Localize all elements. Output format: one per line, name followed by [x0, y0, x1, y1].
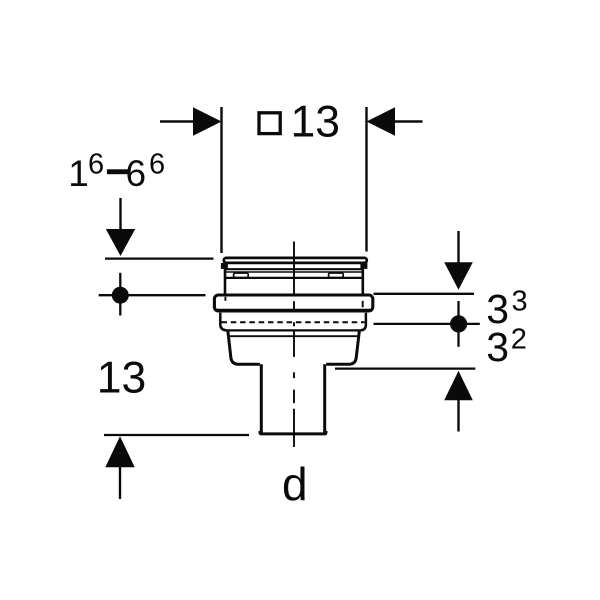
svg-text:d: d [282, 458, 308, 510]
right dimension line B [374, 323, 480, 325]
svg-text:6: 6 [88, 149, 104, 181]
fitting lip left corner block [221, 263, 228, 269]
fitting flange [214, 295, 372, 311]
fitting upper body left edge [224, 264, 227, 295]
fitting cup top line [227, 329, 361, 331]
left up arrow shaft [119, 467, 121, 499]
top right extension line [365, 107, 367, 252]
left node horizontal line [99, 294, 206, 296]
right dimension line C [335, 367, 475, 369]
left node stub line [119, 273, 121, 316]
svg-text:2: 2 [511, 324, 527, 356]
spigot left edge [260, 364, 263, 433]
left node dot [112, 287, 129, 304]
left up arrowhead [105, 436, 134, 467]
right down arrowhead [444, 262, 473, 290]
fitting cup inner line [229, 335, 359, 337]
top dimension left arrowhead [193, 107, 222, 136]
fitting band right edge [360, 313, 366, 331]
top dimension line left tail [160, 120, 194, 122]
fitting right clip [329, 273, 344, 278]
left down arrowhead [106, 229, 135, 256]
top dimension line right tail [395, 120, 423, 122]
svg-text:3: 3 [486, 324, 509, 370]
svg-text:3: 3 [512, 286, 528, 318]
right node dot [450, 315, 467, 332]
svg-text:1: 1 [68, 153, 89, 194]
fitting lip right corner block [360, 263, 367, 269]
fitting dashed seal line [222, 321, 365, 323]
fitting band left edge [220, 313, 227, 331]
fitting left clip [234, 273, 249, 278]
right dimension line A [374, 293, 475, 295]
left bottom dimension line [104, 434, 249, 436]
right down arrow shaft [457, 231, 459, 263]
svg-text:13: 13 [97, 354, 147, 403]
fitting collar line 2 [226, 271, 363, 273]
left down arrow shaft [119, 198, 121, 230]
fitting collar line 3 [225, 277, 364, 279]
svg-text:13: 13 [291, 98, 341, 147]
top left extension line [220, 107, 222, 253]
fitting collar line 1 [225, 268, 364, 270]
fitting top lip [224, 258, 367, 263]
svg-text:6: 6 [126, 153, 147, 194]
right up arrow shaft [457, 400, 459, 432]
spigot bottom edge [260, 431, 326, 434]
right node stub line [457, 301, 459, 347]
right up arrowhead [444, 371, 473, 401]
fitting upper body right edge [361, 264, 364, 295]
square symbol [259, 113, 280, 134]
spigot right edge [323, 364, 326, 433]
centerline [293, 242, 295, 448]
flange left tick [224, 297, 226, 301]
flange inner bottom line [217, 309, 372, 311]
fitting cup and spigot outline [228, 330, 360, 364]
flange right tick [362, 301, 364, 308]
top dimension right arrowhead [367, 107, 396, 136]
svg-text:6: 6 [149, 149, 165, 181]
left dimension line top [105, 257, 214, 259]
